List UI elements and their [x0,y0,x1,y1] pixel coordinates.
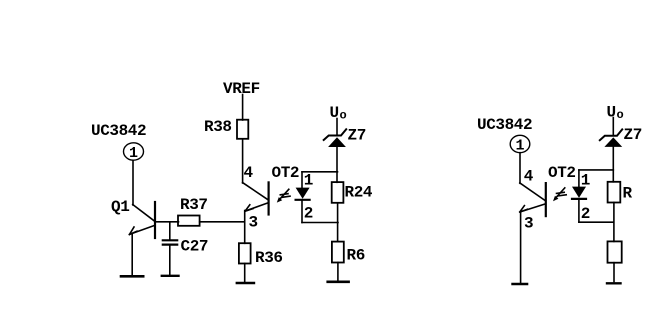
svg-text:R37: R37 [180,196,208,214]
svg-text:OT2: OT2 [272,164,300,182]
svg-text:2: 2 [304,205,313,223]
svg-text:1: 1 [129,145,138,162]
svg-text:Z7: Z7 [348,127,366,145]
svg-text:UC3842: UC3842 [477,116,532,134]
svg-text:UC3842: UC3842 [91,122,146,140]
svg-text:o: o [617,108,624,122]
svg-text:R38: R38 [204,118,232,136]
svg-text:U: U [607,104,616,122]
svg-text:3: 3 [524,215,533,233]
svg-text:U: U [330,104,339,122]
svg-text:C27: C27 [181,238,209,256]
svg-text:1: 1 [304,172,313,190]
svg-text:Z7: Z7 [624,126,642,144]
svg-text:Q1: Q1 [111,198,129,216]
svg-text:2: 2 [581,205,590,223]
svg-text:OT2: OT2 [548,164,576,182]
svg-text:VREF: VREF [223,80,260,98]
svg-text:R: R [623,185,633,203]
svg-text:R36: R36 [255,249,283,267]
svg-text:4: 4 [524,168,534,186]
svg-text:4: 4 [244,164,254,182]
svg-text:o: o [340,109,347,123]
svg-text:3: 3 [249,214,258,232]
svg-text:R24: R24 [345,184,373,202]
svg-text:R6: R6 [347,247,365,265]
svg-text:1: 1 [515,138,524,155]
svg-text:1: 1 [581,172,590,190]
